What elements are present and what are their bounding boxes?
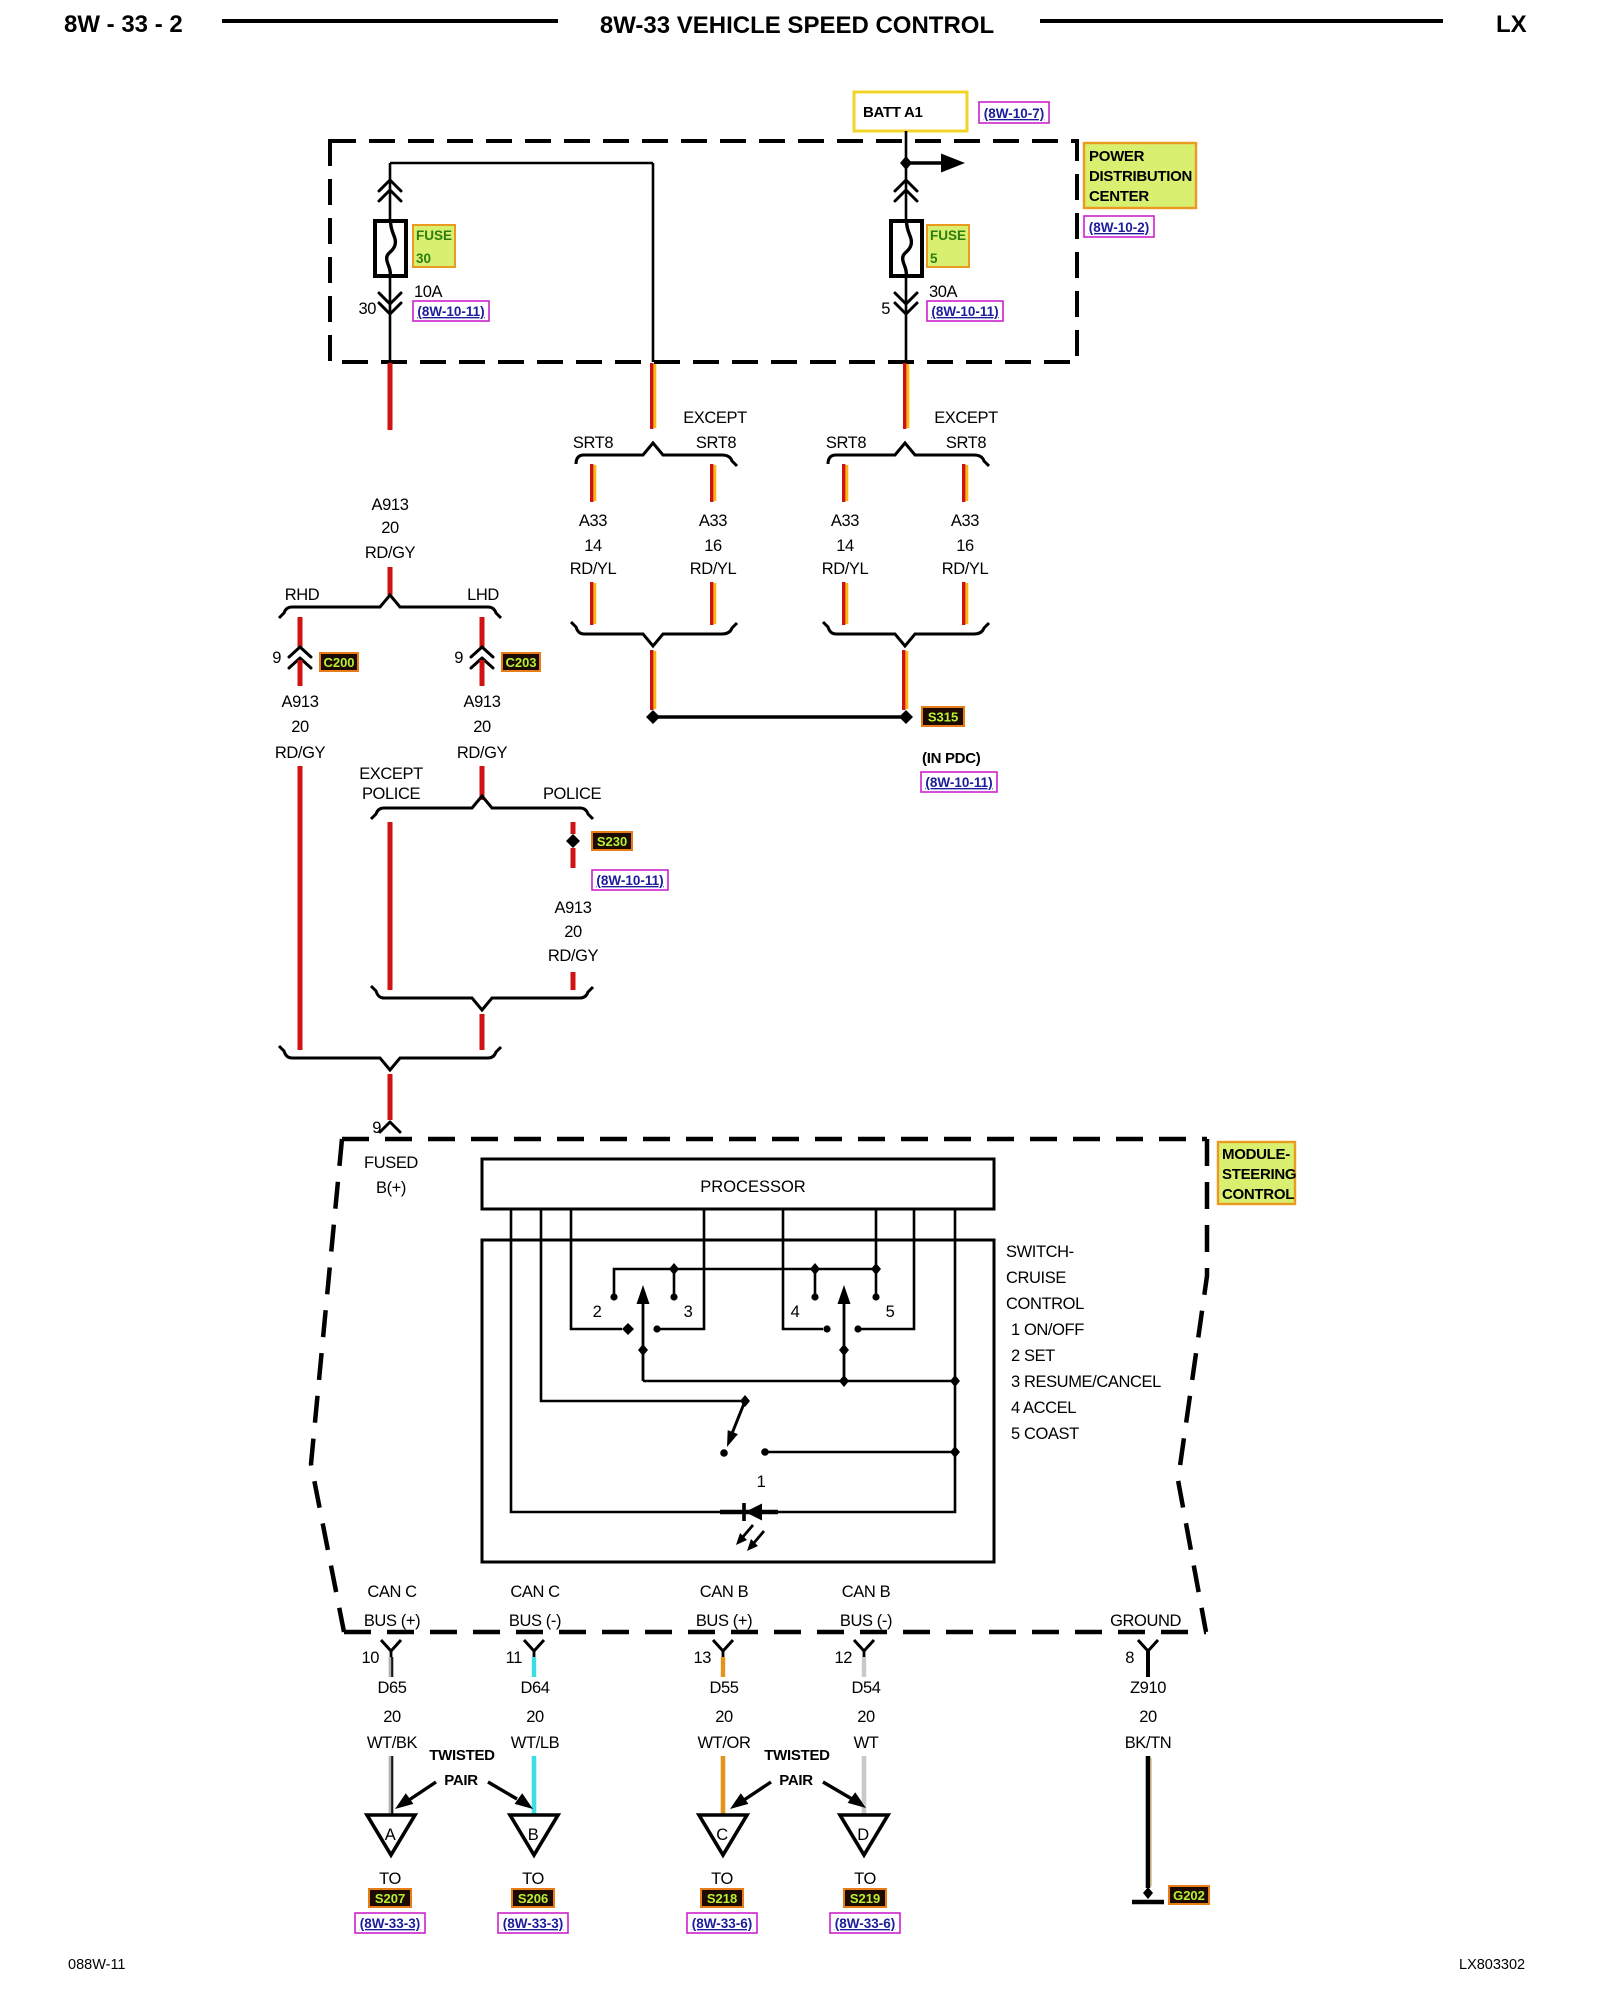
svg-text:2 SET: 2 SET <box>1011 1347 1055 1365</box>
wire RHD below C200 <box>298 660 303 686</box>
svg-text:RD/YL: RD/YL <box>942 560 989 578</box>
svg-text:TO: TO <box>711 1870 733 1888</box>
svg-text:14: 14 <box>584 537 602 555</box>
svg-text:D64: D64 <box>520 1679 549 1697</box>
Power Distribution Center dashed outline <box>330 141 1077 362</box>
connector chevrons below fuse 30 <box>379 293 401 314</box>
label TWISTED PAIR right <box>764 1747 830 1789</box>
contact dots row 4/5 lower <box>823 1325 830 1332</box>
connector Y pin 12 <box>854 1640 874 1677</box>
svg-text:1: 1 <box>757 1473 766 1491</box>
connector chevrons above fuse 30 <box>379 180 401 201</box>
connector chevrons below fuse 5 <box>895 293 917 314</box>
node junction common rail mid <box>839 1375 849 1387</box>
label FUSE 5 <box>927 225 969 267</box>
svg-text:4 ACCEL: 4 ACCEL <box>1011 1399 1076 1417</box>
merge bracket RHD/LHD <box>279 1046 501 1070</box>
twisted pair arrows right <box>730 1782 866 1809</box>
reference label (8W-10-11) left <box>413 301 489 321</box>
svg-text:(8W-10-11): (8W-10-11) <box>417 304 484 319</box>
label A33 14 RD/YL <box>822 512 869 578</box>
contact dots row 2/3 lower <box>622 1323 634 1335</box>
wire RHD long run <box>298 766 303 1050</box>
svg-text:RD/YL: RD/YL <box>822 560 869 578</box>
svg-text:11: 11 <box>506 1649 523 1667</box>
wire RD/YL lower branch left (right pair) <box>844 582 847 625</box>
wire fused B+ stem <box>388 1074 393 1120</box>
split bracket RHD / LHD <box>279 595 501 618</box>
label A913 20 RD/GY (police) <box>548 899 599 965</box>
wire D65 WT/BK <box>390 1756 392 1815</box>
page header left <box>64 11 558 38</box>
label FUSE 30 <box>413 225 455 267</box>
switch box outline <box>482 1240 994 1562</box>
wire processor to common rail <box>777 1209 955 1512</box>
svg-text:D54: D54 <box>851 1679 880 1697</box>
connector chevrons above fuse 5 <box>895 180 917 201</box>
svg-text:RD/YL: RD/YL <box>690 560 737 578</box>
off-page connector B <box>510 1815 558 1855</box>
label C203 <box>502 653 540 671</box>
split bracket SRT8 / EXCEPT SRT8 (left pair) <box>576 443 737 466</box>
connector Y pin 8 <box>1138 1640 1158 1677</box>
svg-text:10A: 10A <box>414 283 443 301</box>
node junction common rail right <box>950 1375 960 1387</box>
merge bracket police <box>371 986 593 1010</box>
label POWER DISTRIBUTION CENTER <box>1084 143 1196 208</box>
svg-text:TO: TO <box>854 1870 876 1888</box>
svg-text:SRT8: SRT8 <box>696 434 737 452</box>
label CAN B BUS (-) <box>840 1583 892 1630</box>
svg-text:A33: A33 <box>831 512 859 530</box>
page title <box>600 11 1527 39</box>
merge bracket right pair <box>823 622 989 646</box>
connector C200 chevrons <box>289 647 311 668</box>
wire A33 14 RD/YL branch <box>592 464 595 502</box>
svg-text:CAN C: CAN C <box>367 1583 417 1601</box>
switch 1 blade <box>720 1401 745 1457</box>
svg-text:D55: D55 <box>709 1679 738 1697</box>
svg-text:CAN C: CAN C <box>510 1583 560 1601</box>
wire police branch upper <box>571 822 576 834</box>
wire police lower <box>571 972 576 990</box>
svg-text:WT/LB: WT/LB <box>511 1734 560 1752</box>
wire stub pin4 top <box>814 1269 817 1294</box>
wire right fuse feed <box>905 163 908 221</box>
off-page connector D <box>840 1815 888 1855</box>
wire A913 RD/GY to split <box>388 567 393 595</box>
wire A33 RD/YL below PDC right <box>905 363 908 429</box>
svg-text:8W-33 VEHICLE SPEED CONTROL: 8W-33 VEHICLE SPEED CONTROL <box>600 12 994 39</box>
svg-text:TO: TO <box>522 1870 544 1888</box>
feed arrow to other circuits <box>906 154 965 173</box>
fuse 5 <box>891 221 922 276</box>
wire processor to pin4 lower contact <box>783 1209 823 1329</box>
processor U1 <box>482 1159 994 1209</box>
svg-text:20: 20 <box>564 923 582 941</box>
label G202 <box>1169 1886 1209 1904</box>
svg-text:CONTROL: CONTROL <box>1222 1186 1294 1203</box>
svg-text:S219: S219 <box>850 1891 880 1906</box>
svg-text:TWISTED: TWISTED <box>764 1747 830 1764</box>
svg-text:10: 10 <box>361 1649 379 1667</box>
svg-text:RD/GY: RD/GY <box>365 544 416 562</box>
wire police below S230 <box>571 848 576 868</box>
svg-text:CAN B: CAN B <box>700 1583 749 1601</box>
wire RD/YL lower branch left <box>592 582 595 625</box>
wiper arrow accel/coast <box>838 1285 851 1381</box>
label CAN C BUS (-) <box>509 1583 561 1630</box>
label D64 20 WT/LB <box>511 1679 560 1752</box>
fuse 30 <box>375 221 406 276</box>
off-page connector C <box>699 1815 747 1855</box>
svg-text:9: 9 <box>272 649 281 667</box>
wire below fuse 30 <box>389 276 392 362</box>
svg-text:(8W-10-11): (8W-10-11) <box>925 775 992 790</box>
twisted pair arrows left <box>395 1782 533 1809</box>
label TO S218 <box>701 1870 743 1907</box>
svg-text:LX: LX <box>1496 11 1527 38</box>
svg-text:SWITCH-: SWITCH- <box>1006 1243 1074 1261</box>
label TO S219 <box>844 1870 886 1907</box>
svg-text:SRT8: SRT8 <box>826 434 867 452</box>
svg-text:S218: S218 <box>707 1891 737 1906</box>
svg-text:20: 20 <box>526 1708 544 1726</box>
split bracket EXCEPT POLICE / POLICE <box>371 796 593 819</box>
node junction pin5 top <box>871 1263 881 1275</box>
svg-text:12: 12 <box>834 1649 852 1667</box>
svg-text:LHD: LHD <box>467 586 499 604</box>
svg-text:(8W-10-7): (8W-10-7) <box>984 106 1045 121</box>
wire merged to final bracket <box>480 1014 485 1050</box>
wire D54 WT <box>862 1756 867 1815</box>
svg-text:FUSE: FUSE <box>930 228 966 243</box>
svg-text:RD/GY: RD/GY <box>548 947 599 965</box>
svg-text:088W-11: 088W-11 <box>68 1957 126 1973</box>
svg-text:S207: S207 <box>375 1891 405 1906</box>
svg-text:G202: G202 <box>1173 1888 1205 1903</box>
label CAN C BUS (+) <box>364 1583 420 1630</box>
wire A33 16 RD/YL branch right pair <box>964 464 967 502</box>
svg-text:RD/YL: RD/YL <box>570 560 617 578</box>
svg-text:PROCESSOR: PROCESSOR <box>700 1178 806 1196</box>
svg-text:LX803302: LX803302 <box>1459 1957 1525 1973</box>
wire D64 WT/LB <box>532 1756 537 1815</box>
svg-text:BK/TN: BK/TN <box>1125 1734 1172 1752</box>
svg-text:S315: S315 <box>928 710 958 725</box>
svg-text:20: 20 <box>857 1708 875 1726</box>
svg-text:EXCEPT: EXCEPT <box>934 409 998 427</box>
svg-text:Z910: Z910 <box>1130 1679 1166 1697</box>
reference label (8W-33-6) <box>830 1913 900 1933</box>
svg-text:SRT8: SRT8 <box>573 434 614 452</box>
label A33 16 RD/YL <box>942 512 989 578</box>
connector Y pin 11 <box>524 1640 544 1677</box>
svg-text:(8W-33-6): (8W-33-6) <box>835 1916 896 1931</box>
svg-text:POLICE: POLICE <box>543 785 602 803</box>
label A913 20 RD/GY (RHD) <box>275 693 326 762</box>
wire left fuse feed <box>389 163 392 221</box>
svg-text:S230: S230 <box>597 834 627 849</box>
connector chevron at module pin 9 <box>380 1122 400 1132</box>
svg-text:A33: A33 <box>951 512 979 530</box>
wire LHD below C203 <box>480 660 485 686</box>
svg-text:A33: A33 <box>699 512 727 530</box>
svg-text:TWISTED: TWISTED <box>429 1747 495 1764</box>
wire processor to pin3 lower contact <box>660 1209 704 1329</box>
svg-text:A33: A33 <box>579 512 607 530</box>
svg-text:FUSED: FUSED <box>364 1154 418 1172</box>
svg-text:WT: WT <box>854 1734 879 1752</box>
svg-text:S206: S206 <box>518 1891 548 1906</box>
battery feed BATT A1 <box>854 92 967 131</box>
svg-text:20: 20 <box>473 718 491 736</box>
svg-text:WT/OR: WT/OR <box>698 1734 751 1752</box>
wiper arrow set/resume <box>637 1285 650 1381</box>
merge bracket left pair <box>571 622 737 646</box>
wire processor to pin5 lower contact <box>861 1209 914 1329</box>
svg-text:C203: C203 <box>505 655 536 670</box>
svg-text:RHD: RHD <box>285 586 320 604</box>
svg-text:(8W-33-3): (8W-33-3) <box>360 1916 421 1931</box>
svg-text:MODULE-: MODULE- <box>1222 1146 1290 1163</box>
connector Y pin 13 <box>713 1640 733 1677</box>
split bracket SRT8 / EXCEPT SRT8 (right pair) <box>828 443 989 466</box>
footer sheet codes <box>68 1957 1525 1973</box>
node splice left <box>646 710 660 724</box>
node splice junction at PDC feed <box>900 156 912 170</box>
svg-text:(8W-10-11): (8W-10-11) <box>596 873 663 888</box>
reference label (8W-33-3) <box>355 1913 425 1933</box>
label A33 14 RD/YL <box>570 512 617 578</box>
wire processor to diode row <box>511 1209 722 1512</box>
wire RD/YL lower branch right <box>712 582 715 625</box>
svg-text:EXCEPT: EXCEPT <box>359 765 423 783</box>
svg-text:20: 20 <box>291 718 309 736</box>
svg-text:BUS (+): BUS (+) <box>696 1612 752 1630</box>
wire Z910 BK/TN <box>1148 1756 1151 1888</box>
svg-text:B: B <box>528 1826 539 1844</box>
wire RHD branch upper <box>298 617 303 648</box>
svg-text:POLICE: POLICE <box>362 785 421 803</box>
svg-text:16: 16 <box>704 537 722 555</box>
svg-text:BUS (-): BUS (-) <box>509 1612 561 1630</box>
svg-text:C: C <box>716 1826 728 1844</box>
svg-text:(8W-10-11): (8W-10-11) <box>931 304 998 319</box>
wire LHD branch upper <box>480 617 485 648</box>
svg-text:4: 4 <box>791 1303 800 1321</box>
wire processor to switch 1 feed <box>541 1209 742 1401</box>
svg-text:RD/GY: RD/GY <box>457 744 508 762</box>
svg-text:BUS (+): BUS (+) <box>364 1612 420 1630</box>
node splice S230 <box>566 834 580 848</box>
svg-text:8: 8 <box>1125 1649 1134 1667</box>
module steering control dashed outline <box>311 1139 1207 1632</box>
node junction at common <box>950 1446 960 1458</box>
svg-text:1 ON/OFF: 1 ON/OFF <box>1011 1321 1084 1339</box>
svg-text:CRUISE: CRUISE <box>1006 1269 1066 1287</box>
svg-text:2: 2 <box>593 1303 602 1321</box>
switch 1 blade pivot <box>740 1395 750 1407</box>
reference label (8W-33-3) <box>498 1913 568 1933</box>
label C200 <box>320 653 358 671</box>
svg-text:D65: D65 <box>377 1679 406 1697</box>
label FUSED B(+) <box>364 1154 418 1197</box>
svg-text:(8W-33-3): (8W-33-3) <box>503 1916 564 1931</box>
svg-text:B(+): B(+) <box>376 1179 406 1197</box>
splice S315 bus wire <box>653 715 906 719</box>
reference label (8W-10-11) at S315 <box>921 772 997 792</box>
svg-text:BUS (-): BUS (-) <box>840 1612 892 1630</box>
svg-text:A: A <box>385 1826 396 1844</box>
svg-text:C200: C200 <box>323 655 354 670</box>
ground G202 <box>1132 1887 1164 1902</box>
svg-text:3 RESUME/CANCEL: 3 RESUME/CANCEL <box>1011 1373 1161 1391</box>
svg-text:13: 13 <box>693 1649 711 1667</box>
svg-text:A913: A913 <box>372 496 409 514</box>
svg-text:5: 5 <box>930 251 938 266</box>
svg-text:3: 3 <box>684 1303 693 1321</box>
wire processor to pin5 top contact <box>875 1209 878 1294</box>
svg-text:TO: TO <box>379 1870 401 1888</box>
label Z910 20 BK/TN <box>1125 1679 1172 1752</box>
svg-text:8W - 33 - 2: 8W - 33 - 2 <box>64 11 183 38</box>
wire RD/YL to S315 right <box>904 650 907 710</box>
label D65 20 WT/BK <box>367 1679 418 1752</box>
label MODULE-STEERING CONTROL <box>1218 1142 1296 1204</box>
svg-text:30A: 30A <box>929 283 958 301</box>
label D55 20 WT/OR <box>698 1679 751 1752</box>
svg-text:GROUND: GROUND <box>1110 1612 1181 1630</box>
reference label (8W-10-2) <box>1084 216 1154 237</box>
svg-text:CENTER: CENTER <box>1089 188 1149 205</box>
svg-text:EXCEPT: EXCEPT <box>683 409 747 427</box>
wire A33 14 RD/YL branch right pair <box>844 464 847 502</box>
svg-text:(IN PDC): (IN PDC) <box>922 750 981 767</box>
label A913 20 RD/GY (LHD) <box>457 693 508 762</box>
svg-text:5: 5 <box>881 300 890 318</box>
svg-text:14: 14 <box>836 537 854 555</box>
node splice S315 <box>899 710 913 724</box>
label S230 <box>592 832 632 850</box>
wire A33 RD/YL below PDC middle <box>652 363 655 429</box>
node junction pin3 top <box>669 1263 679 1275</box>
svg-text:A913: A913 <box>464 693 501 711</box>
label TO S207 <box>369 1870 411 1907</box>
svg-text:POWER: POWER <box>1089 148 1145 165</box>
label CAN B BUS (+) <box>696 1583 752 1630</box>
svg-text:30: 30 <box>358 300 376 318</box>
wire PDC internal bus <box>390 162 653 165</box>
svg-text:DISTRIBUTION: DISTRIBUTION <box>1089 168 1192 185</box>
svg-text:RD/GY: RD/GY <box>275 744 326 762</box>
reference label (8W-10-11) at S230 <box>592 870 668 890</box>
wire A33 16 RD/YL branch <box>712 464 715 502</box>
svg-text:PAIR: PAIR <box>444 1772 478 1789</box>
wire BATT A1 to PDC <box>905 131 908 163</box>
svg-text:20: 20 <box>383 1708 401 1726</box>
wire processor to pin2 lower contact <box>571 1209 622 1329</box>
label SWITCH-CRUISE CONTROL legend <box>1006 1243 1161 1443</box>
wire LHD to police split <box>480 766 485 800</box>
svg-text:A913: A913 <box>282 693 319 711</box>
wire below fuse 5 <box>905 276 908 362</box>
svg-text:5: 5 <box>886 1303 895 1321</box>
wire RD/YL to S315 left <box>652 650 655 710</box>
wire RD/YL lower branch right (right pair) <box>964 582 967 625</box>
reference label (8W-33-6) <box>687 1913 757 1933</box>
svg-text:CONTROL: CONTROL <box>1006 1295 1084 1313</box>
contact dots pins 2,3,4,5 top <box>610 1293 617 1300</box>
diode D1 <box>744 1503 762 1521</box>
label TWISTED PAIR left <box>429 1747 495 1789</box>
diode D1 thick lead <box>720 1510 778 1515</box>
switch 1 right contact <box>761 1448 769 1456</box>
wire except-police branch <box>388 822 393 990</box>
reference label (8W-10-7) <box>979 102 1049 123</box>
svg-text:(8W-33-6): (8W-33-6) <box>692 1916 753 1931</box>
label D54 20 WT <box>851 1679 880 1752</box>
off-page connector A <box>367 1815 415 1855</box>
connector Y pin 10 <box>381 1640 401 1677</box>
label A913 20 RD/GY (PDC output) <box>365 496 416 562</box>
svg-text:D: D <box>857 1826 869 1844</box>
wire wiper common rail <box>643 1380 955 1383</box>
wire A913 RD/GY below PDC left <box>388 363 393 430</box>
svg-text:FUSE: FUSE <box>416 228 452 243</box>
svg-text:BATT A1: BATT A1 <box>863 104 923 121</box>
LED arrows <box>736 1525 764 1551</box>
svg-text:WT/BK: WT/BK <box>367 1734 418 1752</box>
svg-text:20: 20 <box>715 1708 733 1726</box>
wire PDC middle drop <box>652 163 655 362</box>
label S315 <box>922 707 964 726</box>
wire D55 WT/OR <box>721 1756 726 1815</box>
wire stub pin3 top <box>673 1269 676 1294</box>
svg-text:20: 20 <box>1139 1708 1157 1726</box>
svg-text:20: 20 <box>381 519 399 537</box>
svg-text:9: 9 <box>454 649 463 667</box>
svg-text:(8W-10-2): (8W-10-2) <box>1089 220 1150 235</box>
svg-text:STEERING: STEERING <box>1222 1166 1296 1183</box>
wire switch 1 to common <box>767 1451 955 1454</box>
svg-text:5 COAST: 5 COAST <box>1011 1425 1079 1443</box>
label A33 16 RD/YL <box>690 512 737 578</box>
connector C203 chevrons <box>471 647 493 668</box>
svg-text:16: 16 <box>956 537 974 555</box>
svg-text:CAN B: CAN B <box>842 1583 891 1601</box>
node junction pin4 top <box>810 1263 820 1275</box>
wire top contact rail <box>614 1269 876 1297</box>
reference label (8W-10-11) right <box>927 301 1003 321</box>
svg-text:30: 30 <box>416 251 431 266</box>
svg-text:9: 9 <box>372 1119 381 1137</box>
svg-text:SRT8: SRT8 <box>946 434 987 452</box>
svg-text:PAIR: PAIR <box>779 1772 813 1789</box>
svg-text:A913: A913 <box>555 899 592 917</box>
label TO S206 <box>512 1870 554 1907</box>
